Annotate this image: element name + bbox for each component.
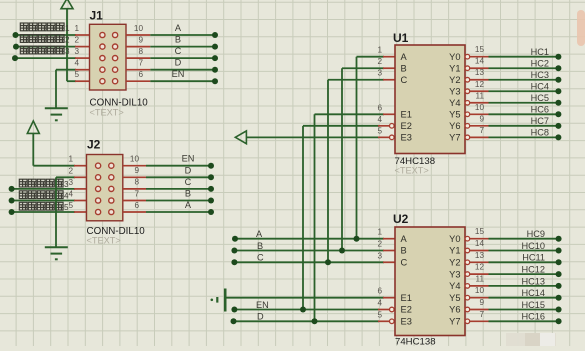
wire U1.E2 horizontal bbox=[303, 125, 379, 127]
svg-text:HC2: HC2 bbox=[531, 59, 549, 69]
svg-text:J1: J1 bbox=[90, 9, 104, 23]
svg-text:U2: U2 bbox=[393, 212, 409, 226]
wire J2 pin1 horizontal bbox=[33, 165, 75, 167]
svg-text:HC11: HC11 bbox=[522, 253, 545, 263]
net labels EN D C B A (J2 side) bbox=[182, 154, 195, 210]
svg-text:2: 2 bbox=[377, 57, 382, 66]
svg-text:<TEXT>: <TEXT> bbox=[90, 108, 124, 118]
pin stub U1 left bbox=[383, 113, 395, 115]
svg-text:Y4: Y4 bbox=[449, 281, 460, 291]
pin numbers U2 left bbox=[377, 228, 382, 320]
pin 5 stub U1 E3 bbox=[378, 136, 390, 138]
pin stub U2 left bbox=[383, 250, 395, 252]
pin stub U1 left bbox=[383, 79, 395, 81]
wire U1.E1 horizontal bbox=[315, 113, 385, 115]
wire net HC9 bbox=[489, 238, 559, 240]
node B dot (J1 side) bbox=[212, 44, 218, 50]
svg-text:11: 11 bbox=[476, 91, 485, 100]
wire J2 pin2 horizontal bbox=[56, 176, 75, 178]
wire J1 net B bbox=[150, 46, 215, 48]
node 列时钟输入 terminal dot bbox=[9, 198, 15, 204]
bubble U1.E3 bbox=[390, 135, 395, 140]
svg-text:2: 2 bbox=[68, 166, 73, 175]
svg-text:1: 1 bbox=[65, 24, 70, 33]
svg-text:HC7: HC7 bbox=[531, 116, 549, 126]
svg-text:HC10: HC10 bbox=[522, 241, 546, 251]
wire net HC14 bbox=[489, 297, 559, 299]
node A dot (J1 side) bbox=[212, 32, 218, 38]
svg-text:4: 4 bbox=[74, 59, 79, 68]
svg-text:A: A bbox=[401, 52, 408, 62]
pin 5 stub U2 E3 bbox=[378, 320, 390, 322]
svg-text:E2: E2 bbox=[401, 305, 412, 315]
pin 6 stub J2 right bbox=[123, 211, 146, 213]
wire net B vertical bus bbox=[341, 68, 343, 250]
wire net HC3 bbox=[489, 79, 559, 81]
svg-text:8: 8 bbox=[138, 47, 143, 56]
connector J1 pin circles bbox=[100, 32, 118, 83]
svg-text:E2: E2 bbox=[401, 121, 412, 131]
pin numbers J1 left bbox=[74, 24, 79, 79]
bubble U2.Y2 bbox=[465, 260, 470, 265]
pin 10 stub J2 right bbox=[123, 165, 146, 167]
wire J1 pin4 horizontal bbox=[56, 69, 76, 71]
pin numbers U1 right bbox=[475, 45, 485, 135]
node HC2 dot bbox=[555, 65, 561, 71]
pin numbers U2 right bbox=[475, 227, 485, 319]
svg-text:9: 9 bbox=[138, 35, 143, 44]
pin 5 stub J1 left bbox=[75, 80, 90, 82]
pin 14 stub U1.Y1 bbox=[470, 67, 489, 69]
svg-text:9: 9 bbox=[479, 298, 484, 307]
power terminal VCC (J2) bbox=[27, 121, 39, 133]
pin name labels U1 outputs bbox=[449, 52, 460, 143]
wire net D vertical bus bbox=[314, 114, 316, 321]
svg-text:3: 3 bbox=[65, 47, 70, 56]
svg-text:7: 7 bbox=[479, 126, 484, 135]
node D dot (J1 side) bbox=[212, 67, 218, 73]
net labels HC9-HC16 bbox=[522, 229, 546, 322]
pin name labels U2 outputs bbox=[449, 234, 460, 327]
bubble U1.Y2 bbox=[465, 77, 470, 82]
svg-text:D: D bbox=[257, 312, 264, 322]
power terminal VCC (J1) bbox=[61, 0, 73, 9]
bubble U1.Y6 bbox=[465, 124, 470, 129]
node D terminal dot (U2) bbox=[231, 318, 237, 324]
svg-text:5: 5 bbox=[377, 310, 382, 319]
pin stub U2 left bbox=[383, 238, 395, 240]
svg-text:2: 2 bbox=[74, 36, 79, 45]
svg-text:5: 5 bbox=[68, 201, 73, 210]
pin 6 stub J1 right bbox=[126, 80, 150, 82]
svg-text:3: 3 bbox=[377, 251, 382, 260]
pin 3 stub J2 left bbox=[74, 188, 87, 190]
svg-text:9: 9 bbox=[134, 166, 139, 175]
pin 7 stub U1.Y7 bbox=[470, 136, 489, 138]
wire net C vertical bus bbox=[327, 80, 329, 263]
svg-text:Y7: Y7 bbox=[449, 317, 460, 327]
connector J1 body bbox=[90, 24, 127, 90]
node 列锁存输入 terminal dot bbox=[9, 186, 15, 192]
svg-text:10: 10 bbox=[475, 286, 485, 295]
svg-text:7: 7 bbox=[134, 189, 139, 198]
svg-text:HC8: HC8 bbox=[531, 128, 549, 138]
pin 11 stub U1.Y4 bbox=[470, 102, 489, 104]
svg-text:Y1: Y1 bbox=[449, 246, 460, 256]
svg-text:D: D bbox=[175, 58, 182, 68]
svg-text:D: D bbox=[185, 165, 192, 175]
wire J1 net A bbox=[150, 34, 215, 36]
svg-text:B: B bbox=[257, 241, 263, 251]
bubble U2.Y1 bbox=[465, 248, 470, 253]
svg-text:A: A bbox=[256, 229, 263, 239]
bubble U2.Y4 bbox=[465, 284, 470, 289]
svg-text:C: C bbox=[175, 46, 182, 56]
node HC10 dot bbox=[556, 248, 562, 254]
pin 10 stub U1.Y5 bbox=[470, 113, 489, 115]
wire net 列时钟输入 row4 bbox=[12, 200, 75, 202]
pin numbers J2 left bbox=[68, 155, 73, 210]
pin 9 stub J1 right bbox=[126, 46, 150, 48]
wire U2.A horizontal bbox=[235, 238, 384, 240]
svg-text:6: 6 bbox=[138, 70, 143, 79]
svg-text:HC1: HC1 bbox=[531, 47, 549, 57]
bubble U2.Y5 bbox=[465, 295, 470, 300]
pin 15 stub U2.Y0 bbox=[470, 238, 489, 240]
wire net HC5 bbox=[489, 102, 559, 104]
pin stub U2 left bbox=[383, 297, 395, 299]
wire net HC12 bbox=[489, 273, 559, 275]
svg-text:74HC138: 74HC138 bbox=[395, 337, 436, 347]
svg-text:12: 12 bbox=[475, 80, 485, 89]
svg-text:3: 3 bbox=[74, 47, 79, 56]
svg-text:B: B bbox=[401, 246, 407, 256]
svg-text:14: 14 bbox=[475, 57, 485, 66]
svg-text:Y0: Y0 bbox=[449, 52, 460, 62]
pin 14 stub U2.Y1 bbox=[470, 250, 489, 252]
wire U1.A horizontal bbox=[357, 56, 385, 58]
pin 2 stub J1 left bbox=[75, 46, 90, 48]
IC U2 body bbox=[395, 227, 465, 336]
svg-text:10: 10 bbox=[130, 155, 140, 164]
svg-text:13: 13 bbox=[475, 68, 485, 77]
svg-text:J2: J2 bbox=[87, 138, 101, 152]
svg-text:C: C bbox=[185, 177, 192, 187]
net labels A B C EN D (U2 inputs) bbox=[256, 229, 269, 322]
svg-text:U1: U1 bbox=[393, 31, 409, 45]
pin 15 stub U1.Y0 bbox=[470, 56, 489, 58]
wire J2 net C bbox=[146, 188, 211, 190]
node A terminal dot (U2) bbox=[232, 236, 238, 242]
junction EN bus to U2.E2 bbox=[300, 307, 306, 313]
node D dot (J2 side) bbox=[208, 174, 214, 180]
svg-text:9: 9 bbox=[479, 114, 484, 123]
pin 12 stub U2.Y3 bbox=[470, 273, 489, 275]
pin name labels U2 inputs bbox=[401, 234, 412, 327]
wire net EN vertical bus bbox=[302, 126, 304, 310]
pin 10 stub J1 right bbox=[126, 34, 150, 36]
wire J2 net A bbox=[146, 211, 211, 213]
wire U2.E3 (D) horizontal bbox=[234, 320, 380, 322]
bubble U1.Y1 bbox=[465, 66, 470, 71]
pin 7 stub U2.Y7 bbox=[470, 320, 489, 322]
node HC12 dot bbox=[556, 271, 562, 277]
svg-text:1: 1 bbox=[377, 46, 382, 55]
svg-text:A: A bbox=[401, 234, 408, 244]
pin 7 stub J2 right bbox=[123, 200, 146, 202]
node HC14 dot bbox=[556, 295, 562, 301]
wire net HC2 bbox=[489, 67, 559, 69]
svg-text:HC14: HC14 bbox=[522, 288, 546, 298]
svg-text:E1: E1 bbox=[401, 110, 412, 120]
wire net HC8 bbox=[489, 136, 559, 138]
svg-text:E1: E1 bbox=[401, 293, 412, 303]
junction D bus to U2.E3 bbox=[312, 318, 318, 324]
wire net 列锁存输入 row3 bbox=[12, 188, 75, 190]
bubble U2.Y7 bbox=[465, 319, 470, 324]
wire J2 pin2 to ground vertical bbox=[55, 177, 57, 246]
wire net HC1 bbox=[489, 56, 559, 58]
svg-text:13: 13 bbox=[475, 251, 485, 260]
label 列数据输出 1 bbox=[20, 23, 70, 33]
wire U1.E3 from arrow bbox=[246, 136, 379, 138]
pin 13 stub U1.Y2 bbox=[470, 79, 489, 81]
wire net HC6 bbox=[489, 113, 559, 115]
svg-text:B: B bbox=[175, 35, 181, 45]
bubble U2.E3 bbox=[390, 319, 395, 324]
ground (J2) bbox=[45, 247, 68, 259]
wire net 列数据输出 row1 bbox=[16, 34, 77, 36]
svg-text:E3: E3 bbox=[401, 133, 412, 143]
svg-text:4: 4 bbox=[68, 190, 73, 199]
svg-text:EN: EN bbox=[182, 154, 195, 164]
wire J2 net EN bbox=[146, 165, 211, 167]
pin 1 stub J2 left bbox=[74, 165, 87, 167]
svg-text:<TEXT>: <TEXT> bbox=[87, 236, 121, 246]
node HC13 dot bbox=[556, 283, 562, 289]
bubble U2.Y3 bbox=[465, 272, 470, 277]
node HC16 dot bbox=[556, 318, 562, 324]
svg-text:3: 3 bbox=[377, 69, 382, 78]
wire net HC7 bbox=[489, 125, 559, 127]
wire net HC15 bbox=[489, 309, 559, 311]
node HC1 dot bbox=[555, 54, 561, 60]
bubble U1.Y3 bbox=[465, 89, 470, 94]
pin 3 stub J1 left bbox=[75, 57, 90, 59]
svg-text:12: 12 bbox=[475, 263, 485, 272]
svg-text:Y2: Y2 bbox=[449, 258, 460, 268]
svg-text:HC6: HC6 bbox=[531, 105, 549, 115]
node HC11 dot bbox=[556, 259, 562, 265]
wire U2.B horizontal bbox=[234, 250, 384, 252]
label 列时钟输入 4 bbox=[19, 191, 69, 201]
node C terminal dot (U2) bbox=[231, 259, 237, 265]
pin 12 stub U1.Y3 bbox=[470, 90, 489, 92]
svg-text:HC13: HC13 bbox=[522, 276, 546, 286]
junction C bus to U2.C bbox=[325, 259, 331, 265]
svg-text:HC12: HC12 bbox=[522, 265, 546, 275]
connector J2 body bbox=[87, 155, 123, 221]
input terminal arrow (U1.E3 enable) bbox=[235, 131, 246, 144]
svg-text:Y4: Y4 bbox=[449, 98, 460, 108]
wire net 列锁存输出 row3 bbox=[15, 57, 76, 59]
pin 11 stub U2.Y4 bbox=[470, 285, 489, 287]
wire net 列数据输入 row5 bbox=[12, 211, 75, 213]
wire J1 pin5 to VCC vertical bbox=[66, 9, 68, 82]
bubble U2.Y0 bbox=[465, 236, 470, 241]
svg-text:2: 2 bbox=[65, 35, 70, 44]
svg-text:Y6: Y6 bbox=[449, 305, 460, 315]
wire J2 net B bbox=[146, 200, 211, 202]
wire J1 pin5 horizontal bbox=[67, 80, 76, 82]
svg-text:Y3: Y3 bbox=[449, 269, 460, 279]
pin 10 stub U2.Y5 bbox=[470, 297, 489, 299]
node HC6 dot bbox=[555, 111, 561, 117]
wire J2 net D bbox=[146, 176, 211, 178]
pin 8 stub J1 right bbox=[126, 57, 150, 59]
node HC5 dot bbox=[555, 100, 561, 106]
wire net A vertical bus bbox=[356, 57, 358, 239]
svg-text:Y1: Y1 bbox=[449, 63, 460, 73]
junction B bus to U2.B bbox=[339, 248, 345, 254]
svg-text:7: 7 bbox=[479, 310, 484, 319]
svg-text:C: C bbox=[401, 258, 408, 268]
wire net HC4 bbox=[489, 90, 559, 92]
svg-text:Y5: Y5 bbox=[449, 293, 460, 303]
node 列锁存输出 terminal dot bbox=[12, 55, 18, 61]
net labels HC1-HC8 bbox=[531, 47, 549, 138]
IC U1 body bbox=[395, 45, 465, 154]
node EN dot (J1 side) bbox=[212, 78, 218, 84]
node EN dot (J2 side) bbox=[208, 163, 214, 169]
svg-text:Y2: Y2 bbox=[449, 75, 460, 85]
node EN terminal dot (U2) bbox=[231, 307, 237, 313]
svg-text:HC5: HC5 bbox=[531, 93, 549, 103]
ground (J1) bbox=[45, 108, 68, 120]
wire net 列时钟输出 row2 bbox=[16, 46, 76, 48]
bubble U2.Y6 bbox=[465, 307, 470, 312]
wire J1 pin4 to ground vertical bbox=[55, 70, 57, 108]
svg-text:Y6: Y6 bbox=[449, 121, 460, 131]
bubble U1.Y0 bbox=[465, 54, 470, 59]
svg-text:2: 2 bbox=[377, 240, 382, 249]
svg-text:HC16: HC16 bbox=[522, 312, 546, 322]
wire J1 net D bbox=[150, 69, 215, 71]
pin numbers U1 left bbox=[377, 46, 382, 136]
svg-text:E3: E3 bbox=[401, 317, 412, 327]
pin 4 stub J1 left bbox=[75, 69, 90, 71]
svg-text:<TEXT>: <TEXT> bbox=[395, 166, 429, 176]
svg-text:Y5: Y5 bbox=[449, 110, 460, 120]
wire J2 pin1 vertical from VCC bbox=[32, 133, 34, 165]
svg-text:B: B bbox=[401, 63, 407, 73]
svg-text:HC3: HC3 bbox=[531, 70, 549, 80]
bubble U1.Y5 bbox=[465, 112, 470, 117]
junction A bus to U2.A bbox=[354, 236, 360, 242]
bubble U2.E2 bbox=[390, 307, 395, 312]
node 列时钟输出 terminal dot bbox=[13, 44, 19, 50]
pin numbers J1 right bbox=[134, 24, 144, 79]
svg-text:EN: EN bbox=[172, 69, 185, 79]
node B dot (J2 side) bbox=[208, 198, 214, 204]
svg-text:4: 4 bbox=[377, 115, 382, 124]
svg-text:3: 3 bbox=[68, 178, 73, 187]
node C dot (J2 side) bbox=[208, 186, 214, 192]
label 列数据输入 5 bbox=[19, 202, 69, 212]
svg-text:HC4: HC4 bbox=[531, 82, 549, 92]
connector J2 pin circles bbox=[96, 163, 114, 215]
svg-text:EN: EN bbox=[256, 300, 269, 310]
pin 1 stub J1 left bbox=[75, 34, 90, 36]
pin 2 stub J2 left bbox=[74, 176, 87, 178]
bubble U1.E2 bbox=[390, 124, 395, 129]
wire U2.E2 (EN) horizontal bbox=[234, 309, 379, 311]
svg-text:C: C bbox=[401, 75, 408, 85]
label 列锁存输出 3 bbox=[20, 46, 70, 56]
svg-text:A: A bbox=[185, 200, 192, 210]
pin name labels U1 inputs bbox=[401, 52, 412, 143]
svg-text:15: 15 bbox=[475, 227, 485, 236]
pin stub U1 left bbox=[383, 67, 395, 69]
wire U1.C horizontal bbox=[328, 79, 384, 81]
net labels A B C D EN (J1 side) bbox=[172, 23, 185, 79]
bubble U1.Y7 bbox=[465, 135, 470, 140]
svg-text:5: 5 bbox=[74, 70, 79, 79]
svg-text:Y0: Y0 bbox=[449, 234, 460, 244]
node A dot (J2 side) bbox=[208, 209, 214, 215]
node HC4 dot bbox=[555, 88, 561, 94]
pin 4 stub U1 E2 bbox=[378, 125, 390, 127]
wire net HC10 bbox=[489, 250, 559, 252]
node C dot (J1 side) bbox=[212, 55, 218, 61]
svg-text:6: 6 bbox=[134, 201, 139, 210]
pin numbers J2 right bbox=[130, 155, 140, 210]
svg-text:4: 4 bbox=[377, 299, 382, 308]
pin 5 stub J2 left bbox=[74, 211, 87, 213]
svg-text:HC9: HC9 bbox=[527, 229, 545, 239]
svg-text:8: 8 bbox=[134, 178, 139, 187]
wire net HC13 bbox=[489, 285, 559, 287]
svg-text:C: C bbox=[257, 253, 264, 263]
svg-text:Y3: Y3 bbox=[449, 86, 460, 96]
pin 4 stub U2 E2 bbox=[378, 309, 390, 311]
pin 9 stub U1.Y6 bbox=[470, 125, 489, 127]
svg-text:1: 1 bbox=[377, 228, 382, 237]
svg-text:6: 6 bbox=[377, 103, 382, 112]
pin 7 stub J1 right bbox=[126, 69, 150, 71]
svg-text:14: 14 bbox=[475, 239, 485, 248]
wire U1.B horizontal bbox=[342, 67, 384, 69]
wire net HC16 bbox=[489, 320, 559, 322]
svg-text:15: 15 bbox=[475, 45, 485, 54]
node HC9 dot bbox=[556, 236, 562, 242]
svg-text:11: 11 bbox=[476, 274, 485, 283]
node HC3 dot bbox=[555, 77, 561, 83]
pin stub U2 left bbox=[383, 261, 395, 263]
svg-text:1: 1 bbox=[74, 24, 79, 33]
pin stub U1 left bbox=[383, 56, 395, 58]
node 列数据输出 terminal dot bbox=[13, 32, 19, 38]
label 列锁存输入 3 bbox=[19, 179, 69, 189]
node B terminal dot (U2) bbox=[231, 248, 237, 254]
power bar terminal (U2.E1) bbox=[211, 289, 226, 312]
node HC7 dot bbox=[555, 123, 561, 129]
wire U2.C horizontal bbox=[234, 261, 384, 263]
svg-text:7: 7 bbox=[138, 59, 143, 68]
svg-text:6: 6 bbox=[377, 287, 382, 296]
node HC15 dot bbox=[556, 307, 562, 313]
svg-text:5: 5 bbox=[377, 126, 382, 135]
